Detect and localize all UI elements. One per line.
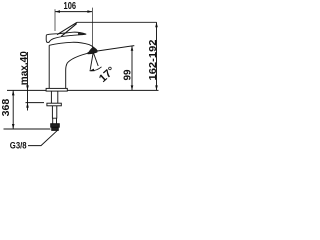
faucet lever arm <box>57 22 77 36</box>
17 deg arc arrowhead <box>89 69 94 72</box>
dimension line max.40 <box>27 52 29 111</box>
faucet base flange <box>46 88 67 91</box>
arrow down 162-192 <box>155 85 158 90</box>
dimension 106 right arrow <box>87 10 92 13</box>
dimension 106 line <box>55 11 92 13</box>
G3/8 connector bottom <box>52 127 59 130</box>
deck underside line <box>26 102 45 104</box>
17 deg tilted stream leg <box>94 53 99 66</box>
arrow up to deck underside (max.40) <box>26 103 29 108</box>
svg-text:max.40: max.40 <box>19 51 30 85</box>
svg-text:368: 368 <box>1 98 12 116</box>
extension line left of 106 <box>54 9 56 31</box>
17 deg vertical reference leg <box>90 53 93 70</box>
dimension line 368 <box>12 90 14 129</box>
leader line from spout outlet to 99 dimension <box>97 46 134 51</box>
svg-text:106: 106 <box>64 1 77 12</box>
aerator (thick underside of spout tip) <box>88 51 97 53</box>
arrow down to deck (max.40) <box>26 85 29 90</box>
arrow up 162-192 <box>155 22 158 27</box>
svg-text:G3/8: G3/8 <box>10 141 27 151</box>
faucet lever cap with pointed horn <box>46 32 86 42</box>
dimension 106 left arrow <box>55 10 60 13</box>
arrow up 368 <box>12 90 15 95</box>
dimension line 162-192 <box>156 22 158 90</box>
faucet lever cap horn dark tip <box>78 33 86 35</box>
extension line right of 106 (to spout outlet) <box>91 8 93 51</box>
arrow down 368 <box>12 124 15 129</box>
svg-text:162-192: 162-192 <box>148 39 159 80</box>
svg-text:99: 99 <box>123 69 134 80</box>
aerator dark fill <box>88 47 98 53</box>
17 deg arc <box>90 67 102 71</box>
supply pipe lower <box>53 118 57 124</box>
dimension line 99 <box>131 46 133 91</box>
shank below deck <box>51 91 57 103</box>
G3/8 connector top <box>51 124 60 128</box>
arrow down 99 <box>131 85 134 90</box>
G3/8 leader line <box>28 130 58 145</box>
faucet body and spout outline <box>49 42 97 88</box>
supply pipe upper <box>52 106 57 118</box>
mounting nut <box>47 103 61 106</box>
bottom reference line 368 <box>4 128 51 130</box>
arrow up 99 <box>131 46 134 51</box>
leader line from lever tip to 162-192 dimension <box>77 21 157 23</box>
deck surface line <box>7 89 159 91</box>
